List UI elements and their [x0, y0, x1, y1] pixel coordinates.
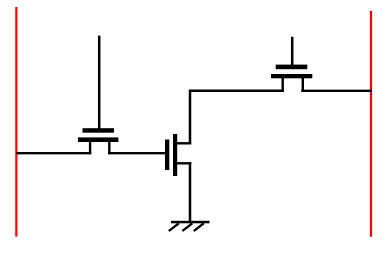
- transistor Q1 drain stub: [108, 142, 110, 155]
- bit line BL2 (right red vertical): [370, 11, 372, 237]
- transistor Q2 source stub: [177, 162, 191, 164]
- ground hatch 3: [194, 223, 204, 231]
- wire: Q3 drain to BL2: [301, 90, 372, 92]
- ground bar: [171, 221, 210, 224]
- transistor Q1 source stub: [89, 142, 91, 155]
- transistor Q3 channel bar: [271, 74, 312, 78]
- bit line BL1 (left red vertical): [15, 7, 17, 237]
- transistor Q1 gate wire (word line stub): [98, 36, 101, 132]
- ground hatch 2: [182, 223, 192, 231]
- wire: Q2 source to ground: [189, 162, 192, 222]
- transistor Q2 drain stub: [177, 142, 191, 144]
- wire: Q1 drain to Q2 gate: [108, 152, 165, 154]
- wire: Q2 drain riser: [190, 91, 284, 145]
- transistor Q3 drain stub: [302, 78, 304, 92]
- transistor Q2 channel bar: [173, 134, 177, 176]
- transistor Q1 gate bar: [83, 128, 115, 133]
- ground hatch 1: [169, 223, 179, 231]
- transistor Q3 gate wire (word line stub): [291, 37, 294, 69]
- wire: BL1 to Q1 source: [17, 152, 92, 154]
- transistor Q3 source stub: [282, 78, 284, 92]
- transistor Q3 gate bar: [276, 65, 308, 70]
- transistor Q2 gate bar: [165, 140, 169, 171]
- transistor Q1 channel bar: [78, 137, 119, 142]
